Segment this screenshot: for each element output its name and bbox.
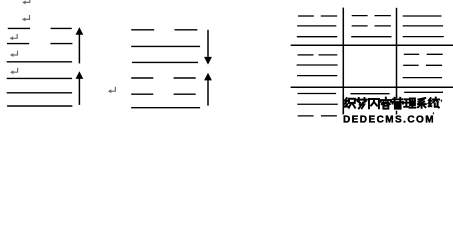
text line row2 segment a <box>7 43 29 45</box>
svg-text:DEDECMS.COM: DEDECMS.COM <box>343 114 435 125</box>
text line row6 <box>7 105 72 107</box>
text line row1 segment a <box>8 27 30 29</box>
watermark CJK line ink <box>345 98 439 109</box>
text line row1 segment a <box>131 29 154 31</box>
table vertical border 2 <box>396 8 398 118</box>
cell text: left column bottom cell <box>297 94 338 116</box>
up arrow B (left, lower) <box>76 71 84 105</box>
cell text: right column bottom cell <box>404 91 443 93</box>
text line row5 segment a <box>131 93 153 95</box>
watermark tick after COM <box>432 112 434 114</box>
text line row3 <box>132 61 198 63</box>
text line row2 segment b <box>50 43 72 45</box>
paragraph mark 1 (clipped at top) <box>22 0 30 4</box>
text line row5 segment b <box>174 93 196 95</box>
paragraph mark 5 <box>10 68 18 74</box>
text line row5 <box>7 92 72 94</box>
paragraph mark 3 <box>10 34 18 40</box>
text line row6 <box>131 107 200 109</box>
table vertical border 2 top tick above watermark <box>396 95 398 98</box>
cell text: right column top cell <box>403 16 444 37</box>
text line row1 segment b <box>51 27 72 29</box>
up arrow A (left, upper) <box>76 27 84 63</box>
cell text: middle column bottom cell <box>351 93 390 95</box>
text line row2 <box>131 45 200 47</box>
watermark tick after CJK line <box>441 100 442 102</box>
paragraph mark 6 <box>108 87 116 93</box>
table vertical border 1 lower segment (over watermark halo) <box>342 95 344 118</box>
watermark latin line DEDECMS.COM <box>343 114 435 125</box>
paragraph mark 2 <box>22 15 30 21</box>
text line row4 <box>7 77 72 79</box>
cell text: right column middle cell <box>403 54 443 77</box>
up arrow (middle) <box>204 73 212 106</box>
text line row4 segment a <box>131 77 153 79</box>
cell text: left column middle cell <box>297 55 338 76</box>
text line row4 segment b <box>174 77 196 79</box>
watermark CJK line halo <box>345 98 439 109</box>
text line row3 <box>7 61 72 63</box>
down arrow (middle) <box>204 30 212 65</box>
cell text: middle column top cell <box>351 16 391 37</box>
cell text: left column top cell <box>297 16 337 37</box>
paragraph mark 4 <box>10 51 18 57</box>
table horizontal border 2 <box>291 86 453 88</box>
table vertical border 1 <box>342 8 344 118</box>
table horizontal border 1 <box>291 44 453 46</box>
text line row1 segment b <box>175 29 198 31</box>
